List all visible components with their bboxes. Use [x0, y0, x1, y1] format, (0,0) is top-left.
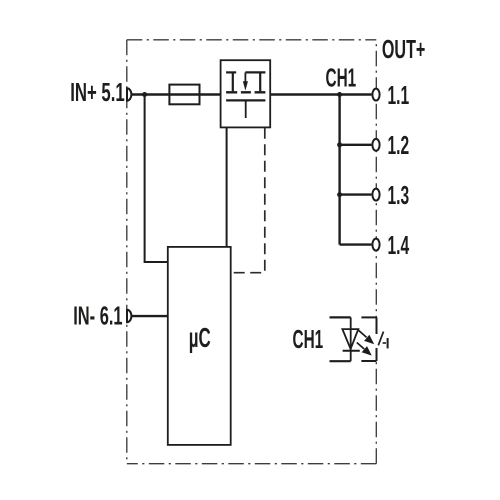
wire output bus vertical	[338, 95, 340, 245]
svg-text:IN+ 5.1: IN+ 5.1	[70, 77, 124, 107]
transistor Q1 MOSFET symbol	[226, 72, 265, 118]
wire branch 1.3	[340, 193, 372, 195]
terminal 1.1	[372, 89, 379, 101]
terminal 1.2	[372, 139, 379, 151]
LED front-panel light mark	[378, 332, 387, 349]
terminal 1.3	[372, 189, 379, 201]
svg-text:OUT+: OUT+	[382, 34, 425, 64]
LED emission arrow 1	[358, 330, 374, 345]
module boundary dash-dot frame	[127, 40, 376, 464]
LED CH1 indicator	[330, 317, 380, 361]
transistor Q1 substrate arrow	[243, 81, 248, 90]
wire branch 1.2	[340, 144, 372, 146]
wire IN- to uC	[132, 315, 168, 317]
svg-text:CH1: CH1	[293, 325, 324, 354]
svg-text:1.1: 1.1	[388, 81, 410, 110]
wire IN+ main	[132, 93, 221, 95]
fuse F1	[169, 85, 199, 105]
svg-text:1.3: 1.3	[388, 181, 410, 210]
wire sense from IN+ node to uC	[145, 95, 168, 263]
svg-text:CH1: CH1	[326, 63, 357, 92]
wire MOSFET output to CH1	[270, 93, 371, 95]
terminal 1.4	[372, 239, 379, 251]
LED emission arrow 2	[357, 343, 372, 356]
terminal IN+ 5.1	[127, 88, 131, 100]
wire branch 1.4	[340, 243, 372, 245]
svg-text:1.2: 1.2	[388, 131, 410, 160]
node junction IN+	[142, 92, 147, 97]
svg-text:1.4: 1.4	[388, 231, 410, 260]
node junction 1.2	[337, 142, 342, 147]
node CH1 junction	[337, 92, 342, 97]
svg-text:IN- 6.1: IN- 6.1	[73, 301, 122, 331]
wire MOSFET source leg to uC	[226, 128, 228, 247]
node junction 1.3	[337, 192, 342, 197]
wire gate control dashed	[231, 128, 265, 273]
svg-text:µC: µC	[189, 322, 211, 353]
microcontroller U1 box	[168, 247, 231, 445]
terminal IN- 6.1	[127, 310, 131, 322]
transistor Q1 electronic switch box	[221, 60, 271, 127]
